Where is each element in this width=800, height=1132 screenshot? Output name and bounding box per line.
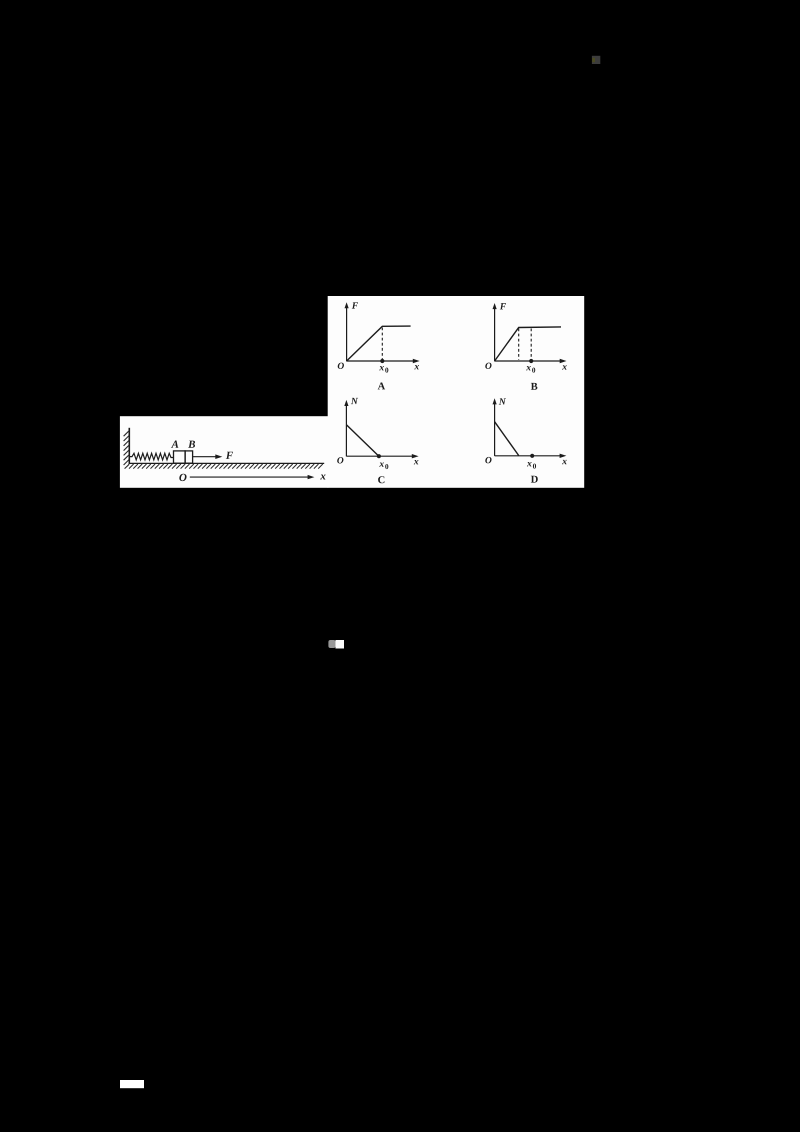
ground line: [129, 462, 325, 464]
wall: [128, 428, 130, 464]
graph C x0 label: [379, 462, 388, 469]
graph A x-axis: [347, 359, 420, 363]
label F (force): [226, 452, 233, 459]
graph A dashed line at x0: [381, 328, 383, 360]
graph C x label: [414, 460, 419, 464]
graph C N label: [351, 398, 358, 404]
mech x-axis arrow: [190, 475, 315, 479]
graph A y-axis: [345, 302, 349, 361]
small white rectangle bottom-left: [120, 1080, 144, 1088]
graph B dashed line at kink: [518, 329, 520, 360]
tiny gray/white marker mid-page: [328, 640, 344, 649]
graph A x0 label: [379, 366, 388, 373]
graph B x-axis: [495, 359, 567, 363]
label A (block): [171, 441, 178, 448]
graph A dot at x0: [380, 359, 384, 363]
white panel: graphs region: [328, 296, 585, 488]
graph A curve: [347, 326, 411, 361]
graph B F label: [500, 303, 506, 309]
graph D O label: [485, 457, 491, 463]
graph C caption: [378, 476, 384, 483]
tiny gray marker top-right: [592, 56, 600, 64]
graph D x label: [562, 460, 567, 464]
graph C dot at x0: [377, 454, 381, 458]
graph B caption: [531, 383, 538, 390]
graph A F label: [352, 302, 358, 308]
graph D x0 label: [527, 462, 536, 469]
graph C O label: [337, 457, 343, 463]
graph C y-axis: [344, 400, 348, 457]
graph D N label: [499, 398, 506, 404]
graph D x-axis: [495, 454, 567, 458]
graph C diagonal line: [346, 425, 379, 457]
mech x-axis label x: [320, 474, 325, 479]
graph B x label: [562, 365, 567, 369]
graph B y-axis: [493, 303, 497, 361]
graph C x-axis: [346, 454, 418, 458]
white panel: mechanics diagram region: [120, 416, 328, 488]
ground hatching: [129, 464, 323, 469]
graph B O label: [485, 363, 491, 369]
graph A O label: [338, 363, 344, 369]
graph B x0 label: [526, 366, 535, 373]
graph B curve: [495, 327, 561, 361]
block B: [185, 451, 193, 463]
graph B dot at x0: [529, 359, 533, 363]
graph B dashed line at x0: [530, 329, 532, 360]
graph D dot at x0: [530, 454, 534, 458]
graph A x label: [414, 365, 419, 369]
graph D diagonal line: [495, 422, 519, 456]
block A: [174, 451, 186, 463]
graph D y-axis: [493, 398, 497, 456]
label B (block): [188, 441, 195, 448]
force F arrow: [193, 454, 222, 459]
graph A caption: [378, 382, 385, 389]
spring: [130, 453, 174, 460]
wall hatching: [124, 431, 130, 469]
graph D caption: [531, 476, 538, 483]
mech x-axis O label: [179, 474, 186, 481]
